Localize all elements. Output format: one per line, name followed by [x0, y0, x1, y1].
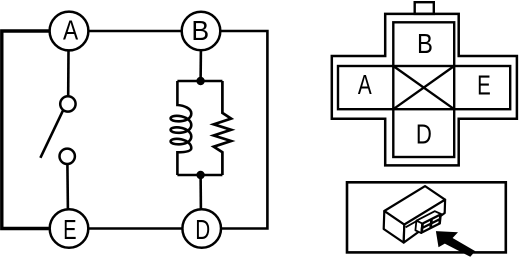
- svg-text:D: D: [195, 215, 210, 246]
- relay location box: [347, 182, 506, 252]
- wire bottom E to D: [89, 227, 181, 230]
- relay connector pins (2x2): [422, 215, 440, 232]
- wire right side (B to D loop): [221, 31, 267, 229]
- inductor L1 (relay coil): [171, 81, 192, 175]
- connector outer cross outline: [332, 14, 517, 166]
- svg-text:D: D: [416, 119, 432, 150]
- terminal A: [50, 12, 89, 51]
- terminal D: [182, 209, 221, 248]
- junction bottom (node D): [196, 171, 204, 179]
- terminal E: [50, 209, 89, 248]
- wire parallel branch bottom: [177, 174, 222, 177]
- connector key tab: [415, 2, 434, 14]
- connector pinout view (cross shape): [332, 2, 517, 165]
- terminal B: [182, 12, 221, 51]
- wire A down to switch: [67, 50, 70, 95]
- center X brace: [393, 66, 454, 109]
- relay connector block with pins: [406, 211, 441, 233]
- wire switch to E: [66, 164, 69, 210]
- junction top (node B): [196, 77, 204, 85]
- svg-text:E: E: [63, 215, 76, 246]
- svg-text:B: B: [417, 27, 433, 59]
- svg-text:B: B: [191, 14, 209, 46]
- pin cavity band B-D: [393, 22, 454, 157]
- resistor R1: [214, 81, 231, 175]
- svg-text:E: E: [477, 70, 491, 101]
- switch lower contact: [59, 149, 74, 164]
- arrow pointing to relay: [436, 231, 475, 257]
- svg-text:A: A: [63, 15, 78, 46]
- wire left side (A to E loop): [2, 31, 50, 229]
- svg-text:A: A: [358, 70, 372, 101]
- wire B down to top junction: [199, 50, 202, 81]
- switch upper contact: [60, 96, 75, 111]
- switch blade: [40, 111, 63, 158]
- relay component icon: main body 3D box: [384, 186, 445, 243]
- wire parallel branch top: [177, 80, 222, 83]
- pin cavity band A-E: [338, 66, 510, 109]
- wire top A to B: [89, 30, 181, 33]
- wire bottom junction to D: [199, 175, 202, 210]
